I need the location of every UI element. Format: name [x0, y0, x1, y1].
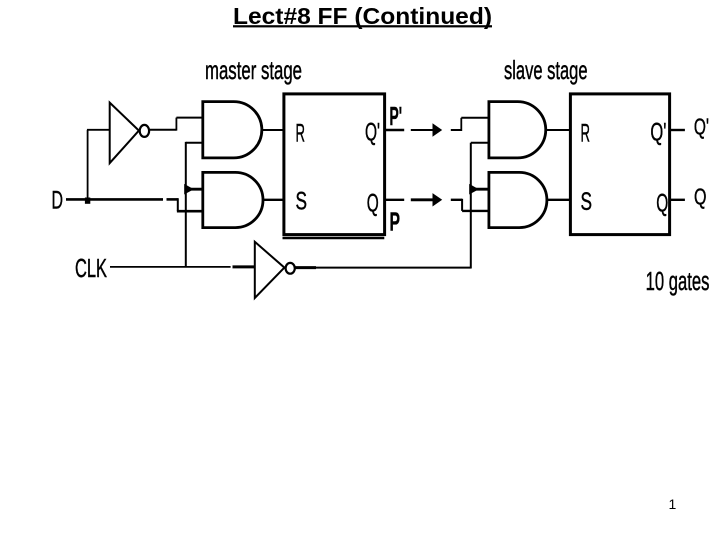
svg-text:S: S	[581, 188, 593, 216]
svg-text:Q: Q	[367, 190, 379, 218]
svg-text:P': P'	[390, 101, 403, 131]
svg-text:Q: Q	[656, 190, 668, 218]
svg-text:slave stage: slave stage	[504, 55, 588, 85]
svg-text:CLK: CLK	[75, 253, 107, 283]
svg-text:Q': Q'	[694, 114, 709, 140]
svg-text:D: D	[52, 187, 64, 215]
svg-text:Q: Q	[694, 183, 707, 209]
svg-text:R: R	[581, 119, 591, 147]
svg-text:Lect#8 FF (Continued): Lect#8 FF (Continued)	[233, 3, 492, 29]
svg-text:Q': Q'	[650, 119, 666, 147]
svg-text:Q': Q'	[365, 119, 380, 147]
svg-text:master stage: master stage	[205, 55, 302, 85]
svg-text:S: S	[296, 188, 308, 216]
svg-text:10 gates: 10 gates	[646, 268, 710, 296]
svg-text:P: P	[390, 207, 401, 237]
svg-text:1: 1	[669, 496, 677, 512]
svg-text:R: R	[296, 119, 306, 147]
